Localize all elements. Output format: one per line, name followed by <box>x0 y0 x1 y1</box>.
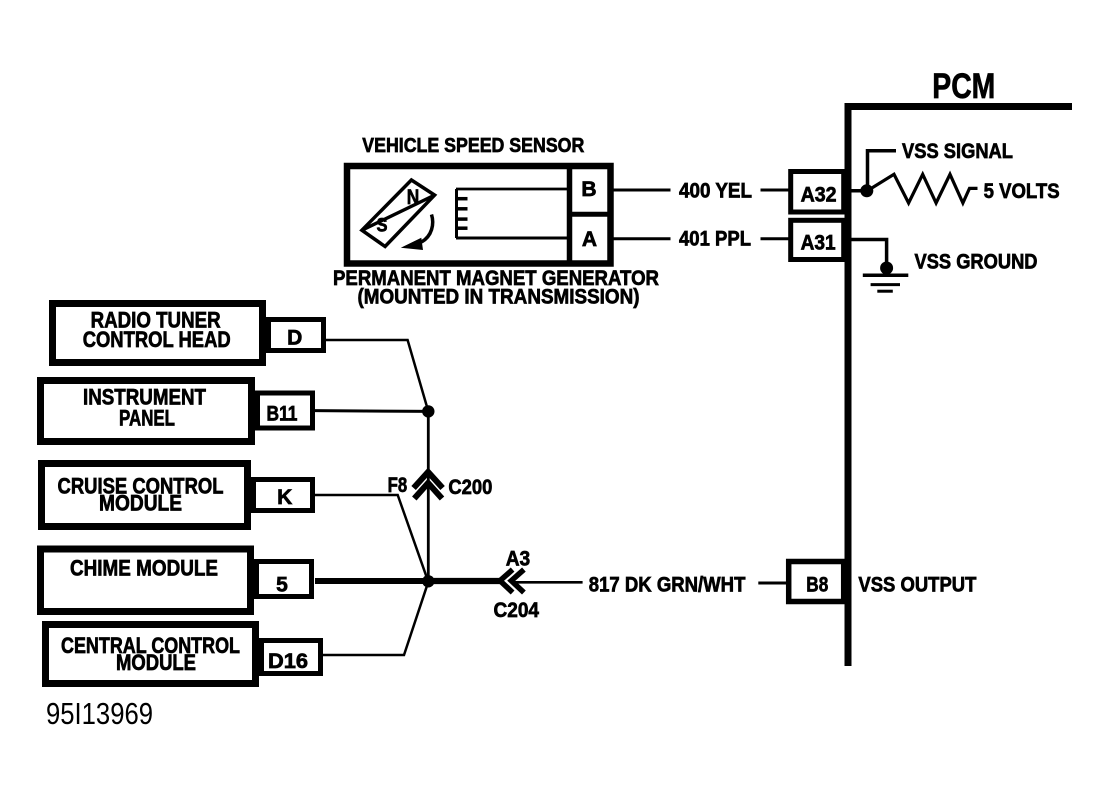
wire to VSS SIGNAL <box>868 151 897 191</box>
terminal D16 <box>262 641 321 674</box>
svg-text:N: N <box>407 186 420 209</box>
chime module box <box>41 549 251 612</box>
wire junction2 to C204 (thick) <box>428 578 502 584</box>
pin B / pin A divider <box>567 212 613 217</box>
rotation arrow <box>401 215 433 251</box>
svg-text:S: S <box>377 215 388 237</box>
connector C204 chevrons <box>500 570 524 593</box>
wire B to 400 YEL <box>613 189 671 192</box>
connector C200 chevrons <box>414 472 443 499</box>
PCM top edge <box>845 103 1072 110</box>
svg-text:B11: B11 <box>267 403 298 426</box>
svg-text:VSS SIGNAL: VSS SIGNAL <box>902 140 1013 163</box>
magnet rotor <box>362 180 435 247</box>
svg-text:MODULE: MODULE <box>116 650 196 675</box>
svg-text:95I13969: 95I13969 <box>46 696 153 731</box>
wire 5 to junction 2 (thick) <box>315 578 428 584</box>
terminal 5 <box>257 562 312 597</box>
wire K to junction 2 <box>315 495 428 582</box>
ground symbol <box>863 275 909 291</box>
svg-text:VEHICLE SPEED SENSOR: VEHICLE SPEED SENSOR <box>362 134 584 157</box>
svg-text:D16: D16 <box>268 650 308 673</box>
svg-text:(MOUNTED IN TRANSMISSION): (MOUNTED IN TRANSMISSION) <box>358 286 640 309</box>
wire A to 401 PPL <box>613 237 671 240</box>
wire B11 to junction <box>315 409 428 413</box>
wire A31 to ground <box>851 240 887 263</box>
node ground junction <box>880 262 893 275</box>
terminal B11 <box>258 393 313 428</box>
terminal D <box>269 320 324 351</box>
svg-text:F8: F8 <box>388 474 408 497</box>
svg-text:PCM: PCM <box>932 67 995 106</box>
svg-text:C204: C204 <box>494 599 540 622</box>
svg-text:400 YEL: 400 YEL <box>679 179 752 202</box>
wire C204 to 817 label <box>514 581 583 584</box>
cruise control module box <box>42 464 248 527</box>
svg-text:VSS OUTPUT: VSS OUTPUT <box>858 574 976 597</box>
svg-text:B8: B8 <box>806 574 828 597</box>
terminal A31 <box>791 220 844 259</box>
svg-text:CONTROL HEAD: CONTROL HEAD <box>83 327 231 352</box>
wire 400 YEL to A32 <box>761 189 789 192</box>
wire 817 to B8 <box>758 582 789 585</box>
node junction 2 <box>422 575 434 587</box>
wire junction1 to junction2 <box>427 411 430 581</box>
terminal B8 <box>789 562 844 602</box>
radio tuner control head box <box>53 304 263 363</box>
svg-text:CHIME MODULE: CHIME MODULE <box>70 556 218 581</box>
wire 401 PPL to A31 <box>761 237 789 240</box>
connector divider line <box>567 166 573 263</box>
node VSS signal junction <box>860 184 873 197</box>
terminal A32 <box>791 172 844 213</box>
PCM left edge <box>845 103 852 666</box>
svg-text:D: D <box>287 327 302 350</box>
wire D16 to junction 2 <box>323 582 428 655</box>
svg-text:5: 5 <box>276 574 288 597</box>
svg-text:B: B <box>581 178 596 201</box>
svg-text:K: K <box>277 486 292 509</box>
svg-text:A: A <box>582 228 597 251</box>
vehicle speed sensor box <box>347 166 611 264</box>
svg-text:MODULE: MODULE <box>99 490 182 515</box>
svg-text:PANEL: PANEL <box>119 406 175 431</box>
wire D to junction <box>326 340 428 411</box>
svg-text:817 DK GRN/WHT: 817 DK GRN/WHT <box>589 574 746 597</box>
svg-text:A32: A32 <box>801 183 837 206</box>
wire A32 to node <box>846 189 866 193</box>
node junction 1 <box>422 405 434 417</box>
svg-text:A31: A31 <box>801 232 836 255</box>
central control module box <box>46 625 256 684</box>
svg-text:C200: C200 <box>448 476 492 499</box>
pickup coil <box>456 189 570 238</box>
svg-text:VSS GROUND: VSS GROUND <box>915 251 1038 274</box>
svg-text:401 PPL: 401 PPL <box>679 228 751 251</box>
instrument panel box <box>41 381 252 442</box>
svg-text:5 VOLTS: 5 VOLTS <box>984 180 1060 203</box>
resistor pull-up <box>867 174 978 203</box>
terminal K <box>254 480 313 511</box>
svg-text:A3: A3 <box>506 547 531 570</box>
